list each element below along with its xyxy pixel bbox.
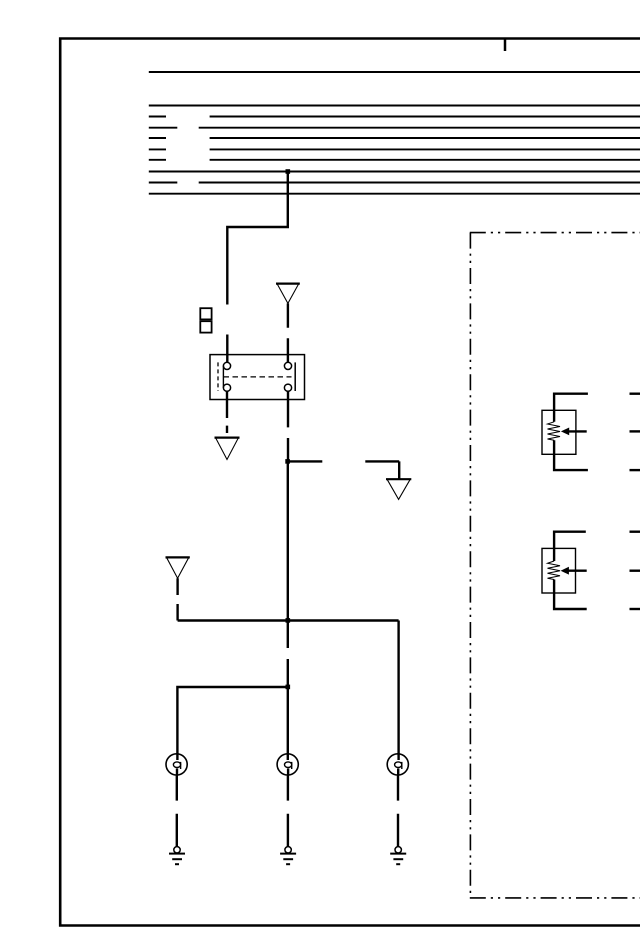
- wire lamp 3 to ground: [397, 775, 399, 847]
- dashed component box top edge: [470, 232, 640, 234]
- wire stub right R2 mid: [630, 570, 640, 572]
- wire stub right R1 top: [630, 393, 640, 395]
- wire bus line B1: [149, 71, 640, 73]
- dashed component box left edge: [469, 233, 471, 898]
- wire stub right R2 bottom: [630, 608, 640, 610]
- rheostat R1 box: [542, 410, 576, 454]
- relay U1 coil bar: [222, 366, 224, 388]
- relay U1 box: [210, 355, 305, 400]
- rheostat R1 wiper arrow: [561, 428, 587, 436]
- wire relay pin 4 down to node B: [287, 391, 289, 461]
- wire bus line B5: [149, 137, 640, 139]
- wire bus line B2: [149, 105, 640, 107]
- frame tick mark: [504, 38, 507, 51]
- wire from T1 to relay contact: [287, 303, 289, 363]
- rheostat R2 wiper arrow: [561, 567, 587, 575]
- relay U1 dashed linkage: [224, 376, 292, 378]
- rheostat R2 bottom terminal wire: [554, 580, 587, 610]
- junction node A on B8: [286, 169, 291, 174]
- relay U1 pin 2: [223, 384, 230, 391]
- connector arrow triangle T1: [276, 284, 300, 304]
- relay U1 pin 1: [223, 362, 230, 369]
- bulb L1: [166, 754, 187, 775]
- bulb L3: [387, 754, 408, 775]
- ground G2: [280, 847, 296, 865]
- ground G3: [390, 847, 406, 865]
- wire from node A down to relay coil: [227, 172, 287, 364]
- wire stub right R2 top: [630, 531, 640, 533]
- rheostat R1 bottom terminal wire: [554, 440, 588, 470]
- wire bus line B4: [149, 127, 640, 129]
- connector arrow triangle T3: [386, 479, 411, 499]
- main vertical wire node B to lamps: [287, 461, 289, 760]
- wire bus line B7: [149, 159, 640, 161]
- relay U1 pin 3: [284, 362, 291, 369]
- rheostat R2 resistor zigzag: [548, 561, 561, 580]
- wire H2 to lamp 1: [177, 687, 287, 760]
- bulb L2: [277, 754, 298, 775]
- junction node B: [285, 459, 290, 464]
- wire lamp 2 to ground: [287, 775, 289, 847]
- wire bus line B3: [149, 116, 640, 118]
- relay U1 dashed vertical: [217, 362, 219, 391]
- dashed branch wire from node B to T3: [288, 461, 400, 479]
- junction node C: [286, 685, 291, 690]
- ground G1: [169, 847, 185, 865]
- junction node on H1: [286, 618, 291, 623]
- wire bus line B10: [149, 193, 640, 195]
- wire relay pin 2 down: [226, 391, 228, 433]
- wire stub right R1 mid: [630, 430, 640, 432]
- wire H1 to lamp 3: [178, 621, 399, 761]
- dashed component box bottom edge: [470, 897, 640, 899]
- connector arrow triangle T4: [166, 557, 190, 578]
- wire lamp 1 to ground: [176, 775, 178, 847]
- wire bus line B9: [149, 182, 640, 184]
- wire bus line B8: [149, 171, 640, 173]
- connector arrow triangle T2: [215, 438, 240, 460]
- wire from T4 down: [176, 578, 178, 620]
- wire bus line B6: [149, 148, 640, 150]
- connector square K1: [200, 308, 211, 319]
- rheostat R1 resistor zigzag: [548, 422, 561, 441]
- rheostat R2 box: [542, 548, 576, 593]
- relay U1 pin 4: [284, 384, 291, 391]
- relay U1 contact bar: [294, 362, 296, 391]
- wire stub right R1 bottom: [630, 469, 640, 471]
- rheostat R2 top terminal wire: [554, 532, 586, 561]
- connector square K2: [200, 321, 211, 332]
- rheostat R1 top terminal wire: [554, 394, 588, 422]
